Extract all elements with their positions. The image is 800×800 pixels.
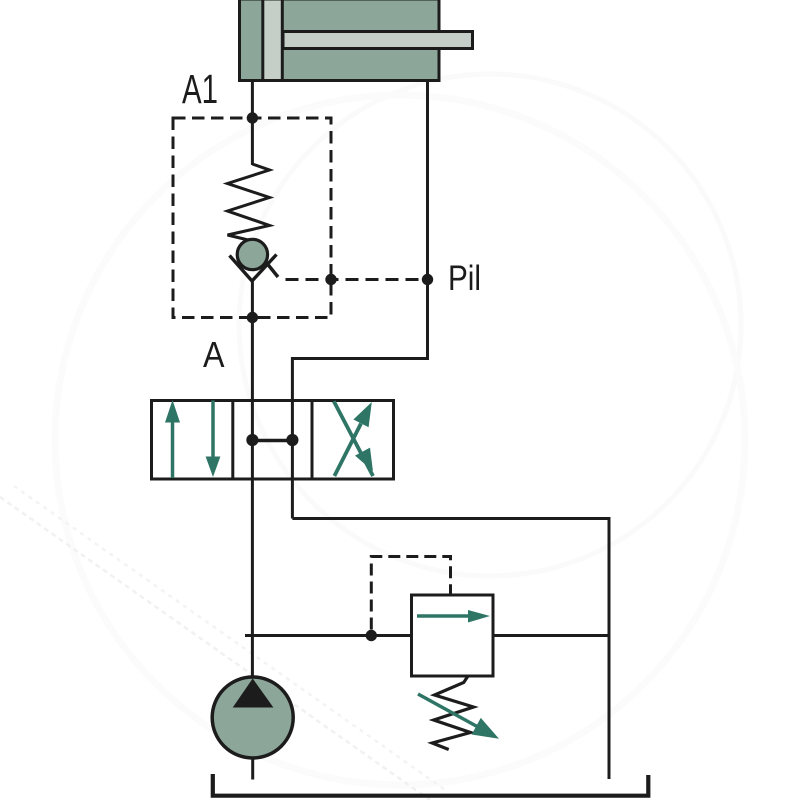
valve right cell arrow descending: [334, 401, 373, 476]
relief adjust arrow: [418, 694, 499, 739]
node Pil junction: [422, 274, 433, 285]
cylinder rod: [283, 32, 473, 49]
pump: [212, 677, 293, 758]
wire pump drain: [251, 758, 254, 780]
wire jog from Pil line to valve: [292, 359, 427, 441]
wire valve out to return jog: [292, 519, 609, 780]
node relief pilot junction: [366, 630, 377, 641]
valve divider 2: [311, 399, 314, 481]
valve right cell arrow ascending: [334, 402, 371, 476]
pilot line dashed: [286, 278, 428, 281]
svg-text:A1: A1: [182, 66, 218, 112]
valve middle cell ports: [246, 434, 298, 446]
relief valve flow arrow: [417, 610, 490, 623]
wire spring feed: [251, 118, 254, 165]
valve divider 1: [231, 399, 234, 481]
node box bottom: [247, 312, 258, 323]
wire pump pressure line: [245, 634, 412, 637]
spring check valve: [228, 164, 270, 241]
cylinder piston: [263, 0, 283, 81]
node box top: [247, 112, 258, 123]
svg-text:A: A: [203, 334, 225, 375]
check valve seat: [230, 255, 277, 282]
cylinder body: [240, 0, 440, 81]
relief pilot dashed line: [371, 557, 450, 630]
relief spring: [432, 676, 473, 750]
pump triangle: [233, 679, 274, 708]
check valve enclosure (dashed box): [173, 118, 331, 318]
wire through valve middle right: [291, 440, 294, 519]
valve left cell down arrow: [206, 401, 221, 478]
wire check valve outlet down through valve to pump: [251, 280, 254, 677]
wire cylinder left port: [251, 82, 254, 118]
svg-text:Pil: Pil: [448, 259, 481, 298]
relief valve body: [412, 595, 494, 676]
check valve ball: [237, 239, 267, 269]
wire relief outlet line: [493, 634, 609, 637]
check valve seat tick: [266, 262, 279, 278]
directional valve body: [152, 401, 394, 480]
valve left cell up arrow: [165, 400, 180, 478]
wire cylinder right port down to jog: [426, 82, 429, 360]
tank: [213, 774, 649, 796]
node pilot box edge: [325, 274, 336, 285]
